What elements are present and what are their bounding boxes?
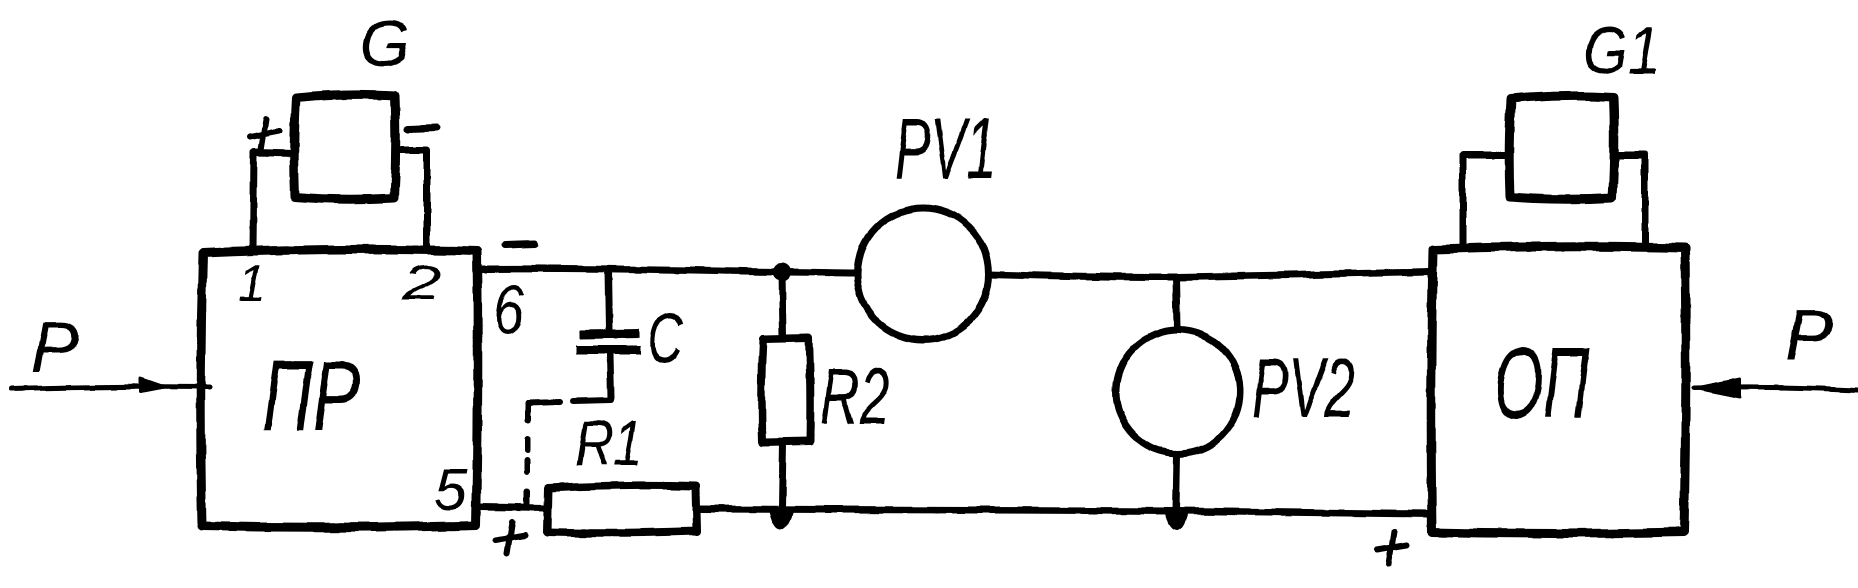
plus (G) [250, 119, 280, 150]
svg-text:1: 1 [237, 255, 266, 313]
svg-text:P: P [31, 308, 79, 388]
resistor R2 bottom stub [782, 442, 783, 508]
svg-text:5: 5 [434, 456, 468, 523]
svg-text:PV2: PV2 [1252, 341, 1355, 435]
voltmeter PV2 bottom stub [1176, 454, 1177, 511]
svg-text:6: 6 [494, 272, 524, 350]
svg-text:PV1: PV1 [895, 101, 996, 197]
dashed wire horizontal [528, 400, 611, 403]
capacitor C top stub [608, 270, 609, 329]
svg-text:2: 2 [401, 255, 442, 311]
voltmeter PV2 [1116, 330, 1240, 454]
resistor R2 top stub [782, 272, 783, 337]
generator G box [294, 95, 396, 199]
svg-text:C: C [647, 299, 684, 379]
voltmeter PV1 [857, 208, 989, 340]
node junction PV2 bottom [1166, 511, 1186, 528]
minus (G) [408, 128, 437, 129]
block ОП [1431, 247, 1686, 534]
wire bottom left (ПР to R1) [478, 507, 546, 508]
plus (ОП bottom) [1377, 532, 1407, 564]
wire top left (ПР to PV1) [478, 269, 857, 273]
resistor R1 [547, 485, 697, 532]
node junction top [773, 263, 791, 281]
minus (node 6) [505, 244, 535, 245]
wire bottom middle (R1 to ОП) [697, 509, 1431, 514]
node junction R2 bottom [771, 509, 792, 528]
wire G1 left leg [1463, 155, 1509, 247]
arrow P right [1694, 387, 1858, 390]
wire G1 right leg [1614, 155, 1645, 247]
dashed wire vertical [527, 403, 528, 507]
wire G left leg [253, 152, 294, 250]
voltmeter PV2 top stub [1176, 277, 1177, 329]
svg-text:R2: R2 [820, 352, 890, 441]
capacitor C bottom stub [610, 355, 611, 398]
arrow P left [10, 387, 210, 389]
capacitor C plates [580, 333, 639, 334]
svg-text:G1: G1 [1583, 13, 1660, 89]
plus (node 5) [495, 522, 525, 554]
svg-text:P: P [1785, 296, 1833, 376]
svg-text:R1: R1 [575, 407, 643, 479]
wire G right leg [396, 150, 427, 250]
svg-text:ОП: ОП [1494, 326, 1590, 440]
resistor R2 [761, 338, 810, 442]
svg-text:G: G [359, 6, 410, 80]
svg-text:ПР: ПР [262, 340, 360, 452]
block ПР [201, 249, 478, 527]
generator G1 box [1509, 96, 1614, 199]
wire top right (PV1 to ОП) [989, 272, 1431, 277]
